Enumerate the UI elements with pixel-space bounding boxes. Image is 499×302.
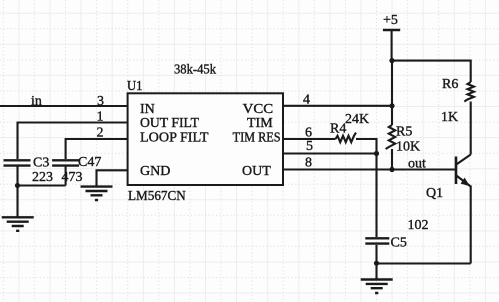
capacitor C3 xyxy=(4,160,31,165)
svg-text:5: 5 xyxy=(306,139,313,154)
wire GND pin stub xyxy=(97,170,128,186)
svg-text:223: 223 xyxy=(32,170,53,185)
wire C5 to right ground xyxy=(375,264,377,280)
junction C5 ground node xyxy=(374,261,379,266)
transistor Q1 base bar xyxy=(455,157,458,185)
svg-text:OUT FILT: OUT FILT xyxy=(140,116,199,131)
wire +5 down xyxy=(391,30,393,61)
svg-text:R6: R6 xyxy=(442,77,458,92)
wire C3 bottom xyxy=(16,166,18,186)
wire pin2 to C47 xyxy=(66,139,127,159)
svg-text:10K: 10K xyxy=(396,140,420,155)
transistor Q1 emitter arrowhead xyxy=(461,178,470,187)
svg-text:OUT: OUT xyxy=(242,164,271,179)
transistor Q1 collector diagonal xyxy=(456,155,470,165)
svg-text:+5: +5 xyxy=(383,13,398,28)
svg-text:TIM RES: TIM RES xyxy=(233,131,281,146)
wire +5 to R5 top xyxy=(391,61,393,125)
svg-text:1: 1 xyxy=(97,110,104,125)
svg-text:R4: R4 xyxy=(330,122,346,137)
svg-text:24K: 24K xyxy=(345,112,369,127)
svg-text:R5: R5 xyxy=(396,125,412,140)
junction +5 split node xyxy=(389,58,394,63)
svg-text:C47: C47 xyxy=(78,155,101,170)
wire emitter to C5 node xyxy=(377,262,471,264)
wire pin8 out to base xyxy=(283,168,455,170)
IC U1 LM567CN body xyxy=(128,93,283,185)
transistor Q1 emitter diagonal xyxy=(456,176,470,187)
svg-text:3: 3 xyxy=(97,94,104,109)
wire node5 down to C5 xyxy=(375,154,377,238)
svg-text:473: 473 xyxy=(62,170,83,185)
svg-text:Q1: Q1 xyxy=(426,186,443,201)
wire pin5 xyxy=(283,152,377,154)
wire C47 bottom xyxy=(65,166,67,186)
svg-text:102: 102 xyxy=(408,218,429,233)
svg-text:C3: C3 xyxy=(33,156,49,171)
junction R5 bottom node xyxy=(389,167,394,172)
ground under GND pin xyxy=(81,187,113,201)
svg-text:LM567CN: LM567CN xyxy=(128,189,186,204)
wire R5 bottom xyxy=(391,149,393,170)
wire pin4 VCC xyxy=(283,105,392,107)
svg-text:C5: C5 xyxy=(391,236,407,251)
resistor R5 xyxy=(386,125,396,149)
svg-text:2: 2 xyxy=(97,126,104,141)
wire pin1 to C3 xyxy=(18,123,128,160)
wire emitter down xyxy=(470,186,472,264)
wire R4 to node5 xyxy=(356,139,377,154)
junction C3 ground node xyxy=(15,183,20,188)
power +5 bar xyxy=(383,29,400,31)
svg-text:1K: 1K xyxy=(441,110,458,125)
svg-text:GND: GND xyxy=(140,164,170,179)
junction VCC node xyxy=(389,103,394,108)
wire pin6 to R4 xyxy=(283,138,336,140)
resistor R6 xyxy=(464,82,474,101)
svg-text:in: in xyxy=(31,94,42,109)
ground right xyxy=(361,280,393,294)
svg-text:U1: U1 xyxy=(127,79,143,94)
wire +5 to R6 branch xyxy=(392,61,471,82)
resistor R4 xyxy=(336,133,357,143)
svg-text:8: 8 xyxy=(305,156,312,171)
svg-text:TIM: TIM xyxy=(247,116,273,131)
svg-text:4: 4 xyxy=(303,93,310,108)
capacitor C47 xyxy=(52,160,79,165)
svg-text:VCC: VCC xyxy=(243,102,274,117)
svg-text:38k-45k: 38k-45k xyxy=(174,63,216,78)
ground left xyxy=(2,217,34,231)
wire C5 bottom xyxy=(375,245,377,264)
svg-text:out: out xyxy=(408,157,426,172)
svg-text:LOOP FILT: LOOP FILT xyxy=(140,131,209,146)
wire down to left ground xyxy=(16,186,18,218)
junction node pin5 xyxy=(374,151,379,156)
wire pin3 input line xyxy=(0,105,127,107)
svg-text:IN: IN xyxy=(140,102,155,117)
capacitor C5 xyxy=(365,238,389,243)
wire R6 to collector xyxy=(470,102,472,155)
wire C3-C47 link xyxy=(18,184,66,186)
